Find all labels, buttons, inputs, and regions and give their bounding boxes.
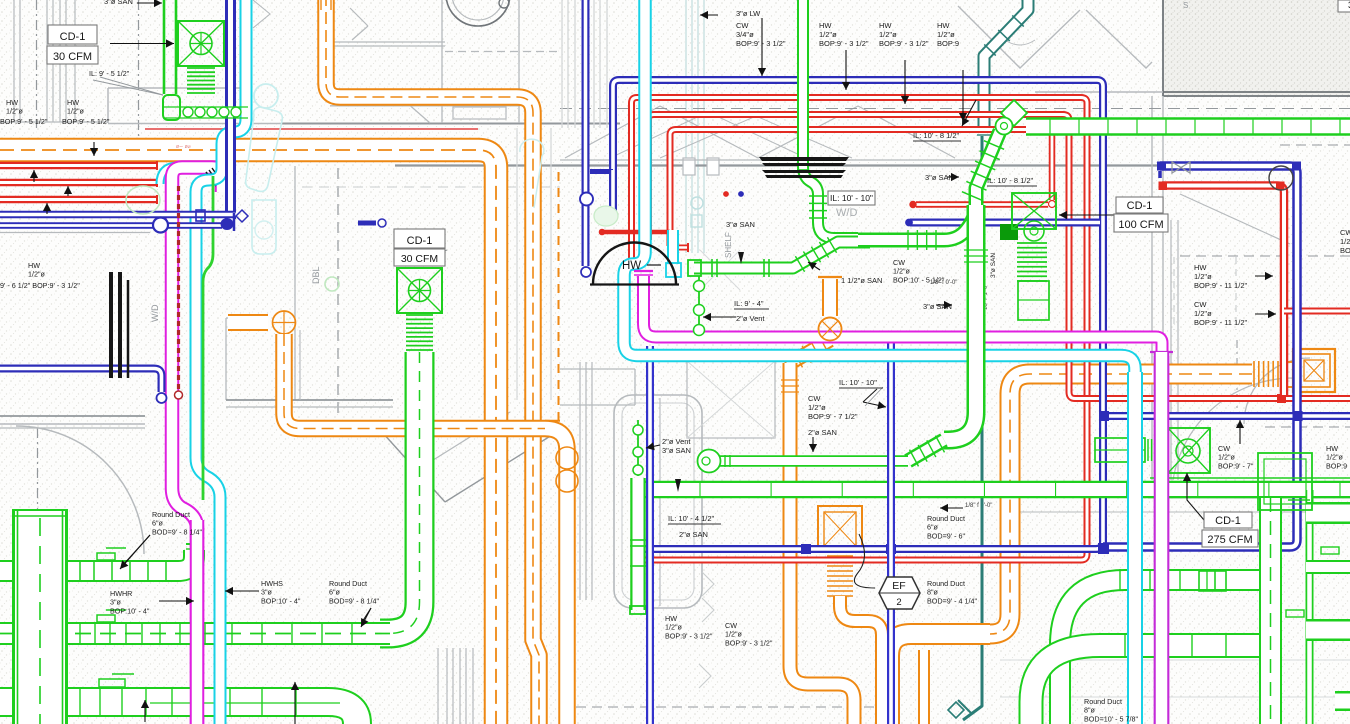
svg-text:HW: HW xyxy=(1326,444,1338,453)
svg-text:IL: 10' - 4 1/2": IL: 10' - 4 1/2" xyxy=(668,514,715,523)
svg-text:HW: HW xyxy=(28,261,40,270)
svg-text:6"ø: 6"ø xyxy=(329,588,341,597)
svg-text:W/D: W/D xyxy=(150,304,160,322)
svg-text:BOP:9' - 5 1/2": BOP:9' - 5 1/2" xyxy=(0,117,48,126)
svg-text:EF: EF xyxy=(892,580,905,592)
svg-text:BOP: BOP xyxy=(1340,246,1350,255)
svg-text:1/2"ø: 1/2"ø xyxy=(819,30,837,39)
svg-text:CW: CW xyxy=(1194,300,1207,309)
svg-text:CW: CW xyxy=(1340,228,1350,237)
svg-text:2"ø Vent: 2"ø Vent xyxy=(662,437,691,446)
svg-text:HW: HW xyxy=(819,21,832,30)
svg-text:IL: 10' - 10": IL: 10' - 10" xyxy=(830,193,873,203)
svg-text:9' - 6 1/2" BOP:9' - 3 1/2": 9' - 6 1/2" BOP:9' - 3 1/2" xyxy=(0,281,80,290)
svg-text:1/2"ø: 1/2"ø xyxy=(665,623,683,632)
svg-text:3"ø SAN: 3"ø SAN xyxy=(726,220,755,229)
svg-text:2"ø SAN: 2"ø SAN xyxy=(679,530,708,539)
svg-text:BOD=10' - 5 7/8": BOD=10' - 5 7/8" xyxy=(1084,714,1139,723)
svg-text:CD-1: CD-1 xyxy=(1127,200,1153,212)
svg-text:3"ø: 3"ø xyxy=(261,588,273,597)
svg-text:CW: CW xyxy=(1218,444,1230,453)
svg-text:1/2"ø: 1/2"ø xyxy=(28,270,46,279)
svg-text:6"ø: 6"ø xyxy=(927,523,939,532)
svg-text:1 1/2"ø SAN: 1 1/2"ø SAN xyxy=(841,276,882,285)
svg-text:BOP:9: BOP:9 xyxy=(1326,461,1347,470)
svg-text:1/2"ø: 1/2"ø xyxy=(808,403,826,412)
svg-text:30 CFM: 30 CFM xyxy=(53,51,92,63)
svg-text:3/4"ø: 3/4"ø xyxy=(736,30,754,39)
svg-text:3"ø LW: 3"ø LW xyxy=(736,9,761,18)
svg-text:CD-1: CD-1 xyxy=(60,31,86,43)
svg-text:W/D: W/D xyxy=(836,207,857,219)
svg-text:CD-1: CD-1 xyxy=(1215,515,1241,527)
svg-text:8"ø: 8"ø xyxy=(1084,706,1096,715)
svg-text:1/2"ø: 1/2"ø xyxy=(1194,272,1212,281)
svg-text:3"ø SAN: 3"ø SAN xyxy=(923,302,952,311)
svg-text:Round Duct: Round Duct xyxy=(927,579,965,588)
svg-text:BOD=9' - 8 1/4": BOD=9' - 8 1/4" xyxy=(152,527,203,536)
svg-text:HWHS: HWHS xyxy=(261,579,283,588)
svg-text:1/2"ø: 1/2"ø xyxy=(1218,453,1236,462)
svg-text:BOD=9' - 6": BOD=9' - 6" xyxy=(927,531,966,540)
svg-text:1/2"ø: 1/2"ø xyxy=(6,107,24,116)
svg-text:BOP:9' - 3 1/2": BOP:9' - 3 1/2" xyxy=(665,631,713,640)
svg-text:BOP:9' - 3 1/2": BOP:9' - 3 1/2" xyxy=(736,39,786,48)
svg-text:275 CFM: 275 CFM xyxy=(1207,534,1252,546)
svg-text:BOP:9' - 3 1/2": BOP:9' - 3 1/2" xyxy=(725,638,773,647)
svg-text:IL: 10' - 8 1/2": IL: 10' - 8 1/2" xyxy=(913,131,960,140)
svg-text:1/2"ø: 1/2"ø xyxy=(1194,309,1212,318)
svg-text:CD-1: CD-1 xyxy=(407,235,433,247)
svg-text:Round Duct: Round Duct xyxy=(329,579,367,588)
svg-text:1/8" f 0'-0": 1/8" f 0'-0" xyxy=(965,503,992,509)
svg-text:HWHR: HWHR xyxy=(110,589,132,598)
svg-text:BOD=9' - 8 1/4": BOD=9' - 8 1/4" xyxy=(329,596,380,605)
svg-text:1/2: 1/2 xyxy=(1340,237,1350,246)
svg-text:IL: 10' - 10": IL: 10' - 10" xyxy=(839,378,877,387)
svg-text:HW: HW xyxy=(665,614,677,623)
svg-text:3"ø SAN: 3"ø SAN xyxy=(662,446,691,455)
svg-text:1/2"ø: 1/2"ø xyxy=(67,107,85,116)
svg-text:BOD=9' - 4 1/4": BOD=9' - 4 1/4" xyxy=(927,596,978,605)
svg-text:1/2"ø: 1/2"ø xyxy=(725,630,743,639)
svg-text:2"ø Vent: 2"ø Vent xyxy=(736,314,765,323)
svg-text:ø∼ ø⌀: ø∼ ø⌀ xyxy=(176,144,191,150)
svg-text:DBL: DBL xyxy=(311,266,321,284)
svg-text:1/2"ø: 1/2"ø xyxy=(893,267,911,276)
svg-text:BOP:9' - 7 1/2": BOP:9' - 7 1/2" xyxy=(808,412,858,421)
svg-text:HW: HW xyxy=(879,21,892,30)
svg-text:1/2"ø: 1/2"ø xyxy=(879,30,897,39)
svg-text:BOP:10' - 4": BOP:10' - 4" xyxy=(261,596,301,605)
svg-text:BOP:9' - 11 1/2": BOP:9' - 11 1/2" xyxy=(1194,318,1247,327)
svg-text:30 CFM: 30 CFM xyxy=(401,253,438,265)
svg-text:CW: CW xyxy=(736,21,749,30)
svg-text:BOP:9' - 7": BOP:9' - 7" xyxy=(1218,461,1254,470)
svg-text:1/2"ø: 1/2"ø xyxy=(937,30,955,39)
svg-text:IL: 9' - 5 1/2": IL: 9' - 5 1/2" xyxy=(89,69,130,78)
svg-text:BOP:9' - 3 1/2": BOP:9' - 3 1/2" xyxy=(879,39,929,48)
svg-text:IL: 9' - 4": IL: 9' - 4" xyxy=(734,299,764,308)
svg-text:IL: 10' - 8 1/2": IL: 10' - 8 1/2" xyxy=(987,176,1034,185)
svg-text:BOP:10' - 5 1/2": BOP:10' - 5 1/2" xyxy=(893,275,945,284)
svg-text:2: 2 xyxy=(896,597,901,608)
svg-text:SHELF: SHELF xyxy=(724,232,733,258)
svg-text:6"ø: 6"ø xyxy=(152,519,164,528)
svg-text:3"ø: 3"ø xyxy=(110,598,122,607)
svg-text:CW: CW xyxy=(808,394,821,403)
svg-text:1/2"ø: 1/2"ø xyxy=(1326,453,1344,462)
svg-text:BOP:9' - 3 1/2": BOP:9' - 3 1/2" xyxy=(819,39,869,48)
svg-text:BOP:9: BOP:9 xyxy=(937,39,959,48)
svg-text:HW: HW xyxy=(6,98,18,107)
svg-text:S: S xyxy=(1183,1,1188,10)
svg-text:3"ø SAN: 3"ø SAN xyxy=(990,253,997,278)
svg-text:CW: CW xyxy=(893,258,905,267)
svg-text:Round Duct: Round Duct xyxy=(1084,697,1122,706)
svg-text:CW: CW xyxy=(725,621,737,630)
svg-text:3"ø SAN: 3"ø SAN xyxy=(104,0,133,6)
svg-text:BOP:9' - 11 1/2": BOP:9' - 11 1/2" xyxy=(1194,281,1247,290)
svg-text:HW: HW xyxy=(622,260,641,272)
svg-text:Round Duct: Round Duct xyxy=(927,514,965,523)
svg-text:BOP:10' - 4": BOP:10' - 4" xyxy=(110,606,150,615)
svg-text:HW: HW xyxy=(937,21,950,30)
svg-text:3"ø SAN: 3"ø SAN xyxy=(925,173,954,182)
svg-text:8"ø: 8"ø xyxy=(927,588,939,597)
svg-text:BOP:9' - 5 1/2": BOP:9' - 5 1/2" xyxy=(62,117,110,126)
svg-text:100 CFM: 100 CFM xyxy=(1118,219,1163,231)
svg-text:HW: HW xyxy=(67,98,79,107)
svg-text:HW: HW xyxy=(1194,263,1207,272)
svg-text:Round Duct: Round Duct xyxy=(152,510,190,519)
svg-text:2"ø SAN: 2"ø SAN xyxy=(808,428,837,437)
